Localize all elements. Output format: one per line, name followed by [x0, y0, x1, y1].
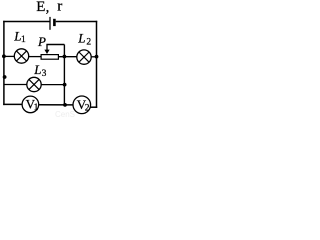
wire L1-to-rheostat [29, 56, 41, 58]
wire slider tap horizontal [46, 44, 64, 46]
voltmeter V1 [22, 96, 39, 113]
wire V2-to-right-corner [90, 106, 97, 108]
wire rheostat-to-L2 [59, 56, 77, 58]
svg-text:,: , [46, 0, 50, 16]
svg-text:r: r [57, 0, 62, 15]
rheostat slider arrow P [44, 45, 49, 55]
lamp L2 [77, 50, 91, 64]
voltmeter V2 [73, 96, 91, 114]
lamp L3 [27, 77, 41, 91]
wire right side [96, 21, 98, 108]
node dot B (tap joins middle branch) [63, 55, 67, 59]
node dot A (left wire / L1 branch) [2, 54, 6, 58]
svg-text:L: L [77, 31, 85, 46]
label L2 [77, 31, 91, 48]
svg-text:1: 1 [34, 103, 39, 113]
lamp L1 [14, 49, 28, 63]
wire left-to-L1 [4, 55, 15, 57]
wire slider tap vertical [63, 45, 65, 58]
svg-text:L: L [33, 62, 41, 77]
svg-text:3: 3 [42, 69, 47, 79]
svg-text:2: 2 [85, 104, 90, 114]
rheostat body [41, 55, 58, 60]
node dot C (right wire junction) [95, 55, 99, 59]
svg-text:1: 1 [21, 35, 26, 45]
wire top-left (battery to left corner) [3, 21, 50, 23]
wire L2-to-right [91, 56, 97, 58]
node dot D (left wire, above L3 branch) [3, 75, 7, 79]
label L3 [33, 62, 46, 79]
node dot F (middle vertical joins bottom wire) [63, 103, 67, 107]
svg-text:2: 2 [86, 38, 91, 48]
wire bottom-left (corner to V1) [3, 103, 22, 105]
wire left-to-L3 [4, 84, 27, 86]
svg-text:E: E [36, 0, 45, 15]
label L1 [13, 29, 26, 45]
node dot E (L3 joins middle vertical) [63, 83, 67, 87]
svg-text:CenS: CenS [55, 110, 75, 118]
wire middle vertical (tap down to bottom) [63, 57, 65, 105]
wire top-right (battery to right corner) [56, 21, 97, 23]
wire L3-to-middle-vertical [41, 84, 64, 86]
battery E,r [50, 17, 56, 30]
wire left side [3, 21, 5, 105]
svg-text:P: P [37, 34, 46, 49]
wire V1-to-V2 [39, 104, 73, 106]
